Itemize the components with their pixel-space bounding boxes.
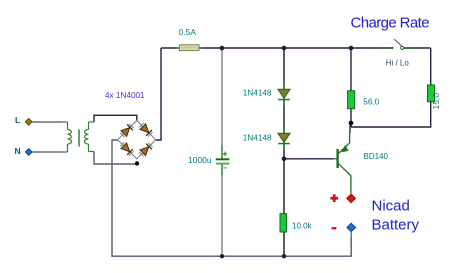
transformer T1 core — [78, 130, 80, 147]
svg-text:Charge Rate: Charge Rate — [351, 15, 430, 32]
bridge rectifier diamond — [118, 121, 156, 159]
wire 10k resistor to bottom rail — [283, 232, 285, 256]
fuse F1 0.5A — [176, 45, 202, 51]
capacitor C1 1000u — [216, 145, 230, 176]
svg-text:56.0: 56.0 — [363, 98, 379, 107]
svg-text:L: L — [15, 115, 20, 125]
wire secondary top to bridge top — [94, 115, 137, 122]
transformer T1 primary coil — [62, 122, 72, 152]
label plus — [330, 194, 338, 202]
svg-text:N: N — [15, 146, 21, 156]
wire bridge left corner down — [112, 140, 118, 164]
terminal battery positive — [347, 194, 356, 203]
wire 56 ohm branch top — [350, 48, 352, 91]
terminal battery negative — [347, 223, 356, 232]
bridge diode D4 bottom-right — [139, 142, 154, 157]
diode D6 1N4148 lower — [278, 127, 290, 150]
wire base from diode junction to transistor — [284, 158, 333, 160]
wire 15 ohm top to switch rail — [430, 48, 432, 85]
junction node 56 ohm bottom emitter — [349, 121, 354, 126]
svg-text:4x 1N4001: 4x 1N4001 — [105, 91, 145, 100]
junction node top rail at capacitor — [220, 46, 225, 51]
svg-text:1000u: 1000u — [188, 155, 212, 165]
transformer T1 secondary coil — [84, 122, 94, 152]
wire diode branch vertical — [283, 48, 285, 214]
svg-text:1N4148: 1N4148 — [243, 134, 272, 143]
svg-text:BD140: BD140 — [364, 152, 389, 161]
switch SW1 — [381, 39, 414, 49]
wire emitter junction to 15 ohm branch — [351, 102, 431, 128]
diode D5 1N4148 upper — [278, 83, 290, 106]
svg-text:Nicad: Nicad — [372, 198, 410, 215]
junction node top rail at diode branch — [282, 46, 287, 51]
wire battery negative green stub — [350, 232, 352, 239]
svg-text:Battery: Battery — [372, 216, 420, 233]
wire emitter to junction — [349, 125, 351, 133]
wire bottom rail — [112, 164, 284, 256]
wire N terminal to primary — [32, 151, 62, 153]
wire left vertical from fuse to bridge right corner — [156, 48, 161, 140]
terminal L — [25, 118, 32, 125]
svg-text:1N4148: 1N4148 — [243, 89, 272, 98]
transistor Q1 BD140 — [333, 133, 351, 193]
bridge diode D1 top-left — [120, 123, 135, 138]
bridge diode D3 bottom-left — [120, 142, 135, 157]
wire capacitor branch vertical — [221, 48, 223, 159]
wire secondary bottom to bridge bottom — [94, 152, 137, 165]
resistor R2 56.0 — [348, 91, 355, 109]
resistor R3 15.0 — [428, 85, 435, 102]
transistor Q1 emitter arrow — [342, 145, 348, 152]
wire L terminal to primary — [32, 121, 62, 123]
svg-text:Hi / Lo: Hi / Lo — [386, 58, 410, 67]
resistor R1 10.0k — [280, 214, 286, 232]
label minus — [332, 227, 337, 229]
wire battery negative to bottom rail — [284, 238, 351, 256]
junction node bottom rail at capacitor — [220, 254, 224, 258]
svg-text:15.0: 15.0 — [431, 93, 441, 110]
svg-text:10.0k: 10.0k — [292, 221, 313, 230]
wire top rail — [161, 47, 391, 49]
terminal N — [25, 149, 32, 156]
junction node bridge bottom — [135, 161, 139, 165]
junction node top rail at 56 ohm branch — [349, 46, 354, 51]
junction node base diode branch — [282, 157, 287, 162]
bridge diode D2 top-right — [139, 122, 154, 137]
junction node bottom rail at 10k — [282, 254, 286, 258]
wire 56 ohm bottom to emitter junction — [350, 109, 352, 127]
svg-text:0.5A: 0.5A — [179, 27, 197, 37]
